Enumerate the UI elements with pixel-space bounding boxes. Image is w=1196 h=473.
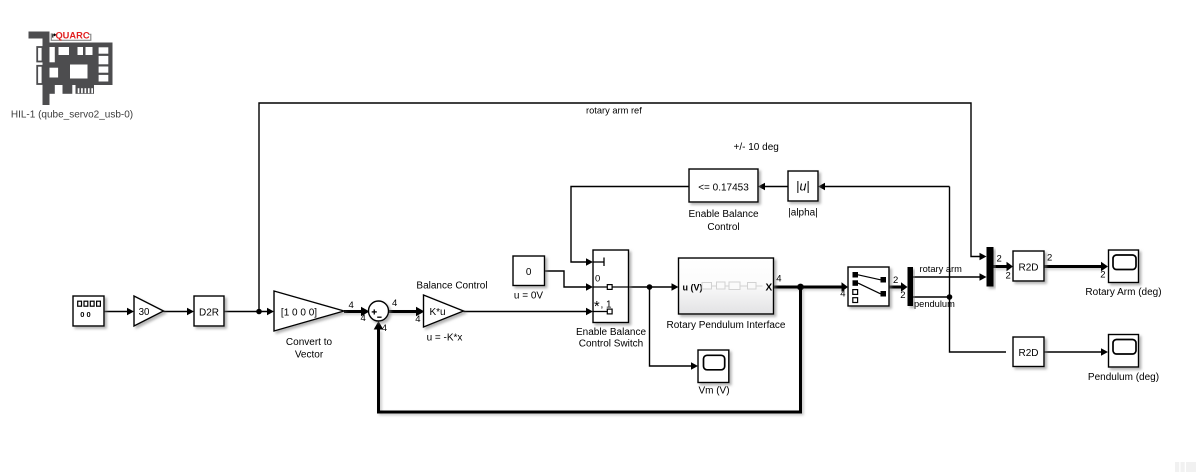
arrow: into sum left: [361, 307, 370, 317]
block: selector: [848, 267, 889, 306]
svg-text:rotary arm: rotary arm: [920, 264, 963, 274]
wire: pendulum R2D to pendulum scope: [1044, 351, 1101, 353]
svg-text:pendulum: pendulum: [914, 299, 955, 309]
arrow: into Rotary Pendulum Interface: [672, 283, 679, 291]
svg-text:Control: Control: [707, 222, 739, 233]
svg-text:4: 4: [382, 323, 387, 334]
svg-text:R2D: R2D: [1018, 262, 1038, 273]
arrow: into demux: [901, 282, 908, 292]
svg-text:Enable Balance: Enable Balance: [576, 327, 646, 338]
svg-text:2: 2: [1047, 253, 1052, 264]
block: HIL-1 card icon: [29, 32, 113, 106]
block: K*u gain (Balance Control): [424, 295, 464, 327]
svg-text:Rotary Arm (deg): Rotary Arm (deg): [1085, 287, 1161, 298]
arrow: into Vm scope: [691, 362, 698, 370]
svg-text:K*u: K*u: [429, 307, 445, 318]
svg-text:|u|: |u|: [796, 180, 809, 194]
watermark bottom right: [1175, 462, 1196, 472]
wire: abs |u| to compare block: [765, 186, 788, 188]
svg-text:*: *: [594, 299, 600, 315]
svg-text:Convert to: Convert to: [286, 337, 333, 348]
svg-text:4: 4: [392, 298, 397, 309]
wire: switch output to Rotary Pendulum Interface: [629, 286, 672, 288]
wire: signal source to gain 30: [104, 311, 127, 313]
arrow: into switch top: [586, 258, 593, 266]
svg-text:4: 4: [415, 314, 420, 325]
block: abs |u| (|alpha|): [788, 171, 818, 201]
arrow: into mux bottom: [980, 273, 987, 281]
svg-text:[1 0 0 0]: [1 0 0 0]: [281, 307, 317, 318]
svg-text:2: 2: [893, 275, 898, 286]
arrow: into K*u: [416, 307, 425, 317]
label: QUARC logo: [51, 34, 91, 40]
wire: compare block to switch top input: [571, 187, 689, 263]
arrow: into sum bottom (feedback): [374, 321, 384, 330]
svg-text:2: 2: [900, 290, 905, 301]
node: branch dot on interface output: [797, 284, 804, 291]
svg-text:4: 4: [361, 313, 366, 324]
svg-text:2: 2: [1100, 269, 1105, 280]
arrow: into gain 30: [127, 308, 134, 316]
block: constant 0: [513, 256, 545, 286]
node: pendulum branch dot: [947, 294, 953, 300]
block: compare <= 0.17453: [689, 169, 758, 202]
svg-text:u = 0V: u = 0V: [514, 291, 544, 302]
block: demux bar: [908, 267, 914, 306]
block: R2D (pendulum): [1013, 337, 1044, 367]
wire (vector): selector to demux: [889, 286, 901, 289]
arrow: into D2R: [187, 308, 194, 316]
svg-text:Vm (V): Vm (V): [698, 385, 729, 396]
wire (vector): Rotary Pendulum Interface to selector: [774, 286, 842, 289]
block: mux bar: [987, 247, 994, 287]
wire: branch down to Vm scope: [650, 287, 692, 366]
wire: demux rotary arm to mux: [913, 276, 980, 278]
arrow: into mux top: [980, 253, 987, 261]
wire (vector): sum to K*u: [389, 310, 417, 313]
svg-text:30: 30: [139, 307, 150, 318]
svg-text:0: 0: [595, 274, 600, 285]
block: Vm scope: [698, 350, 729, 383]
arrow: into abs (pointing left): [818, 183, 825, 191]
wire: gain 30 to D2R: [164, 311, 188, 313]
arrow: into Convert to Vector: [267, 308, 274, 316]
arrow: into switch middle: [586, 283, 593, 291]
arrow: into pendulum R2D: [1101, 348, 1108, 356]
svg-text:X: X: [766, 283, 773, 294]
arrow: into R2D top: [1007, 262, 1014, 272]
wire: D2R to Convert to Vector (with branch): [224, 311, 267, 313]
svg-text:4: 4: [776, 273, 781, 284]
wire: pendulum line to abs |u|: [825, 186, 950, 188]
svg-text:u = -K*x: u = -K*x: [427, 333, 463, 344]
svg-text:Pendulum (deg): Pendulum (deg): [1088, 372, 1159, 383]
block: Rotary Pendulum Interface: [679, 258, 774, 314]
block: Rotary Arm scope: [1109, 250, 1139, 283]
svg-text:HIL-1 (qube_servo2_usb-0): HIL-1 (qube_servo2_usb-0): [11, 109, 133, 120]
block: signal source (0 0): [73, 296, 104, 326]
block: gain 30: [134, 296, 164, 326]
svg-text:4: 4: [840, 288, 845, 299]
svg-text:u (V): u (V): [683, 283, 703, 293]
svg-text:Balance Control: Balance Control: [416, 281, 487, 292]
svg-text:Rotary Pendulum Interface: Rotary Pendulum Interface: [667, 320, 786, 331]
node: branch dot on switch output: [647, 284, 653, 290]
arrow: into Rotary Arm scope: [1101, 262, 1108, 272]
node: branch dot on D2R output: [256, 309, 262, 315]
svg-text:|alpha|: |alpha|: [788, 208, 818, 219]
wire: pendulum vertical branch line: [913, 187, 1006, 353]
block: Enable Balance Control Switch: [593, 250, 629, 323]
svg-text:, 1: , 1: [601, 300, 613, 311]
wire: K*u gain to switch bottom input: [464, 311, 587, 313]
block: Convert to Vector gain: [274, 291, 344, 331]
wire (vector): Convert to Vector to sum: [344, 310, 362, 313]
wire (vector): mux to R2D: [994, 265, 1007, 268]
arrow: into compare (pointing left): [758, 183, 765, 191]
arrow: into selector: [842, 282, 849, 292]
wire (vector): R2D to Rotary Arm scope: [1044, 265, 1101, 268]
block: D2R: [194, 296, 224, 326]
wire: constant 0 to switch middle input: [545, 271, 587, 287]
svg-text:4: 4: [349, 300, 354, 311]
svg-text:QUARC: QUARC: [55, 31, 89, 41]
svg-text:2: 2: [1006, 270, 1011, 281]
svg-text:+/- 10 deg: +/- 10 deg: [734, 142, 779, 153]
svg-text:D2R: D2R: [199, 307, 219, 318]
svg-text:<= 0.17453: <= 0.17453: [698, 183, 749, 194]
block: Pendulum scope: [1109, 335, 1139, 368]
svg-text:0 0: 0 0: [80, 310, 90, 319]
block: R2D (rotary arm): [1013, 251, 1044, 281]
svg-text:rotary arm ref: rotary arm ref: [586, 106, 642, 116]
svg-text:Control Switch: Control Switch: [579, 339, 643, 350]
wire: rotary arm ref (branch up, across top, down to mux): [259, 103, 980, 312]
svg-text:Vector: Vector: [295, 350, 324, 361]
svg-text:Enable Balance: Enable Balance: [688, 209, 758, 220]
wire (vector): feedback loop to sum bottom: [379, 287, 801, 412]
svg-text:2: 2: [997, 254, 1002, 265]
svg-text:R2D: R2D: [1018, 348, 1038, 359]
arrow: into switch bottom: [586, 308, 593, 316]
svg-text:0: 0: [526, 267, 532, 278]
block: sum junction: [369, 301, 389, 321]
